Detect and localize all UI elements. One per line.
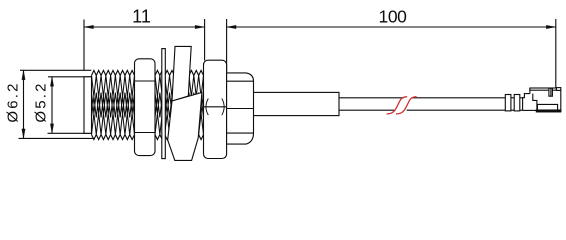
hex N3 center ridge line	[227, 108, 254, 110]
dimension dia6.2 arrow top	[22, 70, 25, 80]
plug right edge	[560, 90, 562, 112]
svg-text:Ø6.2: Ø6.2	[5, 81, 22, 122]
dimension 11 line	[84, 26, 205, 28]
cable upper line	[339, 97, 404, 99]
dimension dia5.2 line	[51, 77, 53, 134]
cable upper line after break	[412, 97, 506, 99]
crimp ferrule	[251, 92, 339, 115]
dimension dia6.2 line	[23, 70, 25, 138]
lock washer lower leaf	[168, 93, 202, 161]
hex N2 left vertex arc	[206, 99, 208, 116]
thread section 1	[92, 70, 135, 75]
dimension 100 line	[227, 26, 556, 28]
dimension 100 arrow left	[227, 25, 237, 28]
crimp hex N3	[227, 73, 254, 144]
hex N3 face line upper	[227, 80, 254, 82]
connector face plate	[84, 77, 92, 134]
lock washer upper leaf	[172, 46, 191, 101]
plug inner step	[537, 104, 557, 109]
plug top plate	[530, 88, 557, 90]
cable stub to plug bottom	[520, 109, 523, 111]
hex body nut N1	[135, 59, 156, 156]
cable break mark red curve 2	[396, 97, 417, 114]
dimension 11 arrow left	[84, 25, 94, 28]
hex N1 flat line lower	[135, 132, 156, 134]
panel washer plate	[162, 49, 166, 159]
svg-text:Ø5.2: Ø5.2	[33, 81, 50, 122]
plug bottom line left	[523, 109, 536, 111]
cable line between rings top	[511, 97, 514, 99]
cable lower line	[339, 109, 394, 111]
plug bottom bar	[536, 110, 561, 113]
cable lower line after break	[407, 109, 506, 111]
dimension 100 extension line right	[555, 19, 557, 88]
thread section 2	[155, 70, 204, 75]
plug body left step profile	[523, 94, 530, 111]
dimension 11 extension line left	[83, 20, 85, 71]
dimension dia5.2 arrow bottom	[50, 124, 53, 134]
crimp ring 2	[514, 95, 520, 111]
dimension dia6.2 arrow bottom	[22, 129, 25, 139]
plug contact notch	[549, 88, 553, 96]
plug contact notch inner line	[550, 88, 552, 96]
dimension dia5.2 extension line bottom	[48, 132, 92, 134]
svg-text:100: 100	[379, 7, 408, 27]
plug plate left end edge	[529, 88, 531, 94]
hex N1 flat line upper	[135, 80, 156, 82]
crimp ring 1	[505, 95, 511, 111]
plug plate right flange	[557, 88, 561, 91]
dimension 11 arrow right	[195, 25, 205, 28]
plug body left inner stairs	[533, 94, 537, 110]
dimension 100 extension line left	[226, 19, 228, 72]
dimension 11 extension line right	[204, 19, 206, 61]
hex N3 face line lower	[227, 132, 254, 134]
dimension dia5.2 arrow top	[50, 77, 53, 87]
dimension dia6.2 extension line bottom	[19, 137, 95, 139]
hex nut N2	[204, 60, 227, 158]
svg-text:11: 11	[132, 7, 151, 27]
dimension dia5.2 extension line top	[48, 76, 92, 78]
dimension dia6.2 extension line top	[20, 69, 91, 71]
hex N2 center ridge line	[204, 106, 227, 108]
cable break mark red curve 1	[387, 97, 408, 114]
dimension 100 arrow right	[546, 25, 556, 28]
hex N2 right vertex arc	[222, 99, 224, 116]
cable stub to plug	[520, 97, 523, 99]
cable line between rings bottom	[511, 109, 514, 111]
